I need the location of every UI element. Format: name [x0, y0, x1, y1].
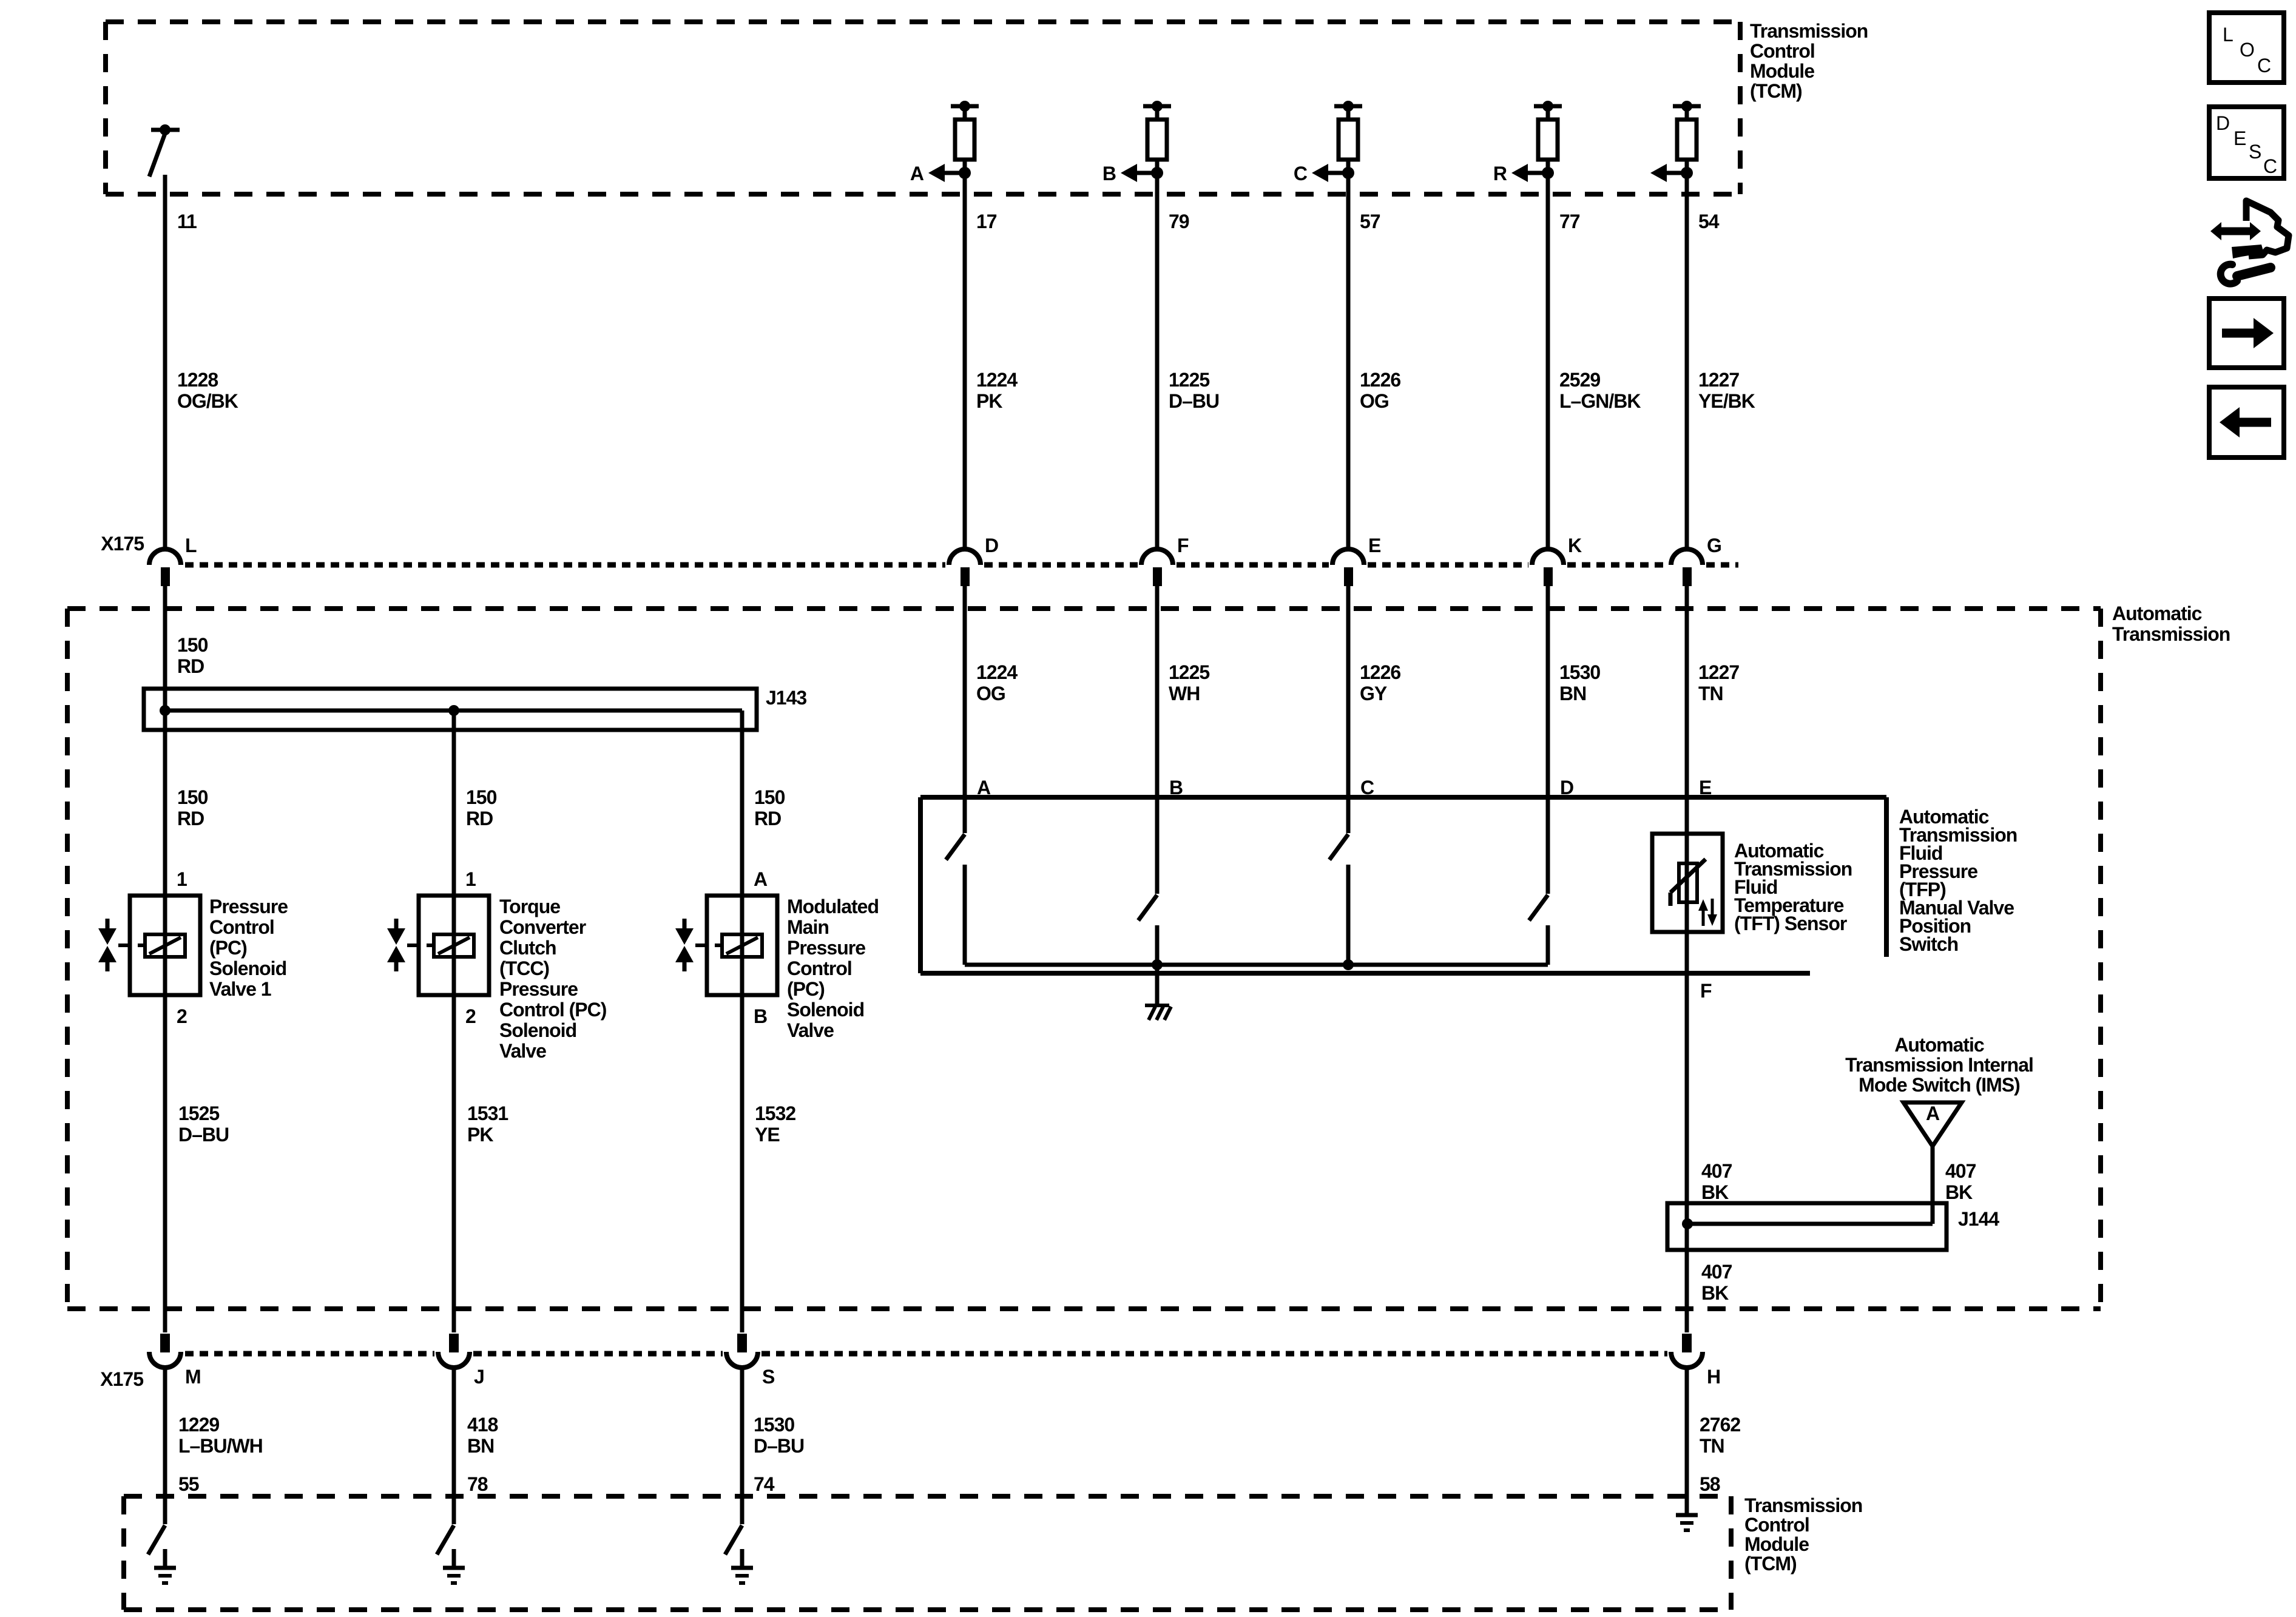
svg-text:E: E	[1699, 777, 1712, 798]
svg-text:2762: 2762	[1700, 1414, 1740, 1436]
svg-text:OG: OG	[1360, 390, 1389, 412]
svg-text:150: 150	[177, 786, 208, 808]
svg-text:S: S	[2249, 141, 2261, 163]
svg-text:Control: Control	[209, 916, 274, 938]
svg-text:(TFT) Sensor: (TFT) Sensor	[1734, 913, 1847, 934]
svg-text:A: A	[977, 777, 991, 798]
svg-text:RD: RD	[177, 655, 204, 677]
svg-text:C: C	[2263, 155, 2277, 177]
svg-text:1: 1	[465, 868, 476, 890]
svg-text:Main: Main	[787, 916, 829, 938]
svg-text:BN: BN	[1559, 683, 1586, 704]
svg-text:77: 77	[1559, 211, 1580, 232]
svg-text:TN: TN	[1700, 1435, 1724, 1457]
svg-text:D–BU: D–BU	[178, 1124, 229, 1146]
svg-text:Transmission Internal: Transmission Internal	[1845, 1054, 2033, 1076]
svg-text:E: E	[1368, 535, 1381, 556]
svg-text:1224: 1224	[976, 661, 1018, 683]
svg-text:Valve: Valve	[499, 1040, 546, 1062]
svg-text:BK: BK	[1701, 1282, 1729, 1304]
svg-text:150: 150	[177, 634, 208, 656]
svg-text:B: B	[754, 1005, 767, 1027]
svg-text:1226: 1226	[1360, 661, 1400, 683]
svg-text:GY: GY	[1360, 683, 1387, 704]
svg-text:E: E	[2234, 127, 2246, 149]
svg-text:B: B	[1102, 163, 1116, 184]
svg-text:C: C	[1294, 163, 1308, 184]
svg-text:1227: 1227	[1698, 369, 1739, 391]
svg-text:Control: Control	[1744, 1514, 1809, 1536]
svg-text:WH: WH	[1169, 683, 1200, 704]
svg-text:C: C	[2257, 55, 2271, 76]
svg-text:J144: J144	[1958, 1208, 1999, 1230]
svg-text:L–GN/BK: L–GN/BK	[1559, 390, 1641, 412]
svg-text:74: 74	[754, 1473, 775, 1495]
svg-text:79: 79	[1169, 211, 1189, 232]
svg-text:(TCM): (TCM)	[1750, 80, 1802, 102]
svg-text:Solenoid: Solenoid	[787, 999, 864, 1021]
svg-text:1531: 1531	[467, 1102, 508, 1124]
svg-text:A: A	[1926, 1102, 1940, 1124]
svg-text:TN: TN	[1698, 683, 1723, 704]
svg-text:Solenoid: Solenoid	[499, 1019, 576, 1041]
svg-text:150: 150	[466, 786, 497, 808]
svg-text:Pressure: Pressure	[787, 937, 865, 959]
svg-text:1: 1	[177, 868, 187, 890]
svg-text:R: R	[1493, 163, 1507, 184]
svg-text:Module: Module	[1750, 60, 1814, 82]
svg-text:A: A	[754, 868, 768, 890]
svg-text:C: C	[1360, 777, 1374, 798]
svg-text:1226: 1226	[1360, 369, 1400, 391]
svg-text:Valve: Valve	[787, 1019, 834, 1041]
svg-text:RD: RD	[466, 808, 493, 829]
svg-text:1228: 1228	[177, 369, 218, 391]
svg-text:2: 2	[465, 1005, 476, 1027]
svg-text:1225: 1225	[1169, 369, 1209, 391]
svg-text:57: 57	[1360, 211, 1380, 232]
svg-text:Control (PC): Control (PC)	[499, 999, 607, 1021]
svg-text:D: D	[2216, 112, 2229, 134]
svg-text:L: L	[2223, 24, 2233, 46]
svg-text:Control: Control	[787, 957, 852, 979]
svg-text:Transmission: Transmission	[1744, 1494, 1862, 1516]
svg-text:D: D	[1560, 777, 1573, 798]
svg-text:407: 407	[1945, 1160, 1976, 1182]
svg-text:Clutch: Clutch	[499, 937, 556, 959]
svg-text:(TCC): (TCC)	[499, 957, 549, 979]
svg-text:Mode Switch (IMS): Mode Switch (IMS)	[1859, 1074, 2020, 1096]
svg-text:(PC): (PC)	[787, 978, 825, 1000]
svg-text:L: L	[185, 535, 197, 556]
svg-text:54: 54	[1698, 211, 1720, 232]
svg-text:1525: 1525	[178, 1102, 219, 1124]
svg-text:17: 17	[976, 211, 997, 232]
svg-text:D: D	[985, 535, 998, 556]
svg-text:418: 418	[467, 1414, 498, 1436]
svg-text:Switch: Switch	[1899, 933, 1958, 955]
svg-text:Valve 1: Valve 1	[209, 978, 271, 1000]
svg-text:Converter: Converter	[499, 916, 586, 938]
svg-text:1532: 1532	[755, 1102, 795, 1124]
svg-text:Control: Control	[1750, 40, 1815, 62]
svg-text:Solenoid: Solenoid	[209, 957, 286, 979]
svg-text:Modulated: Modulated	[787, 896, 879, 917]
svg-text:OG: OG	[976, 683, 1005, 704]
svg-text:55: 55	[178, 1473, 199, 1495]
svg-text:150: 150	[754, 786, 785, 808]
svg-text:H: H	[1707, 1366, 1720, 1388]
svg-text:B: B	[1169, 777, 1183, 798]
svg-text:YE/BK: YE/BK	[1698, 390, 1755, 412]
svg-text:F: F	[1700, 980, 1712, 1002]
svg-text:RD: RD	[754, 808, 781, 829]
svg-text:1224: 1224	[976, 369, 1018, 391]
svg-text:11: 11	[177, 211, 197, 232]
svg-text:RD: RD	[177, 808, 204, 829]
svg-text:2: 2	[177, 1005, 187, 1027]
svg-text:M: M	[185, 1366, 201, 1388]
svg-text:YE: YE	[755, 1124, 780, 1146]
svg-text:J: J	[474, 1366, 484, 1388]
svg-text:78: 78	[467, 1473, 488, 1495]
svg-text:Transmission: Transmission	[2112, 623, 2230, 645]
svg-text:BK: BK	[1701, 1181, 1729, 1203]
svg-text:PK: PK	[467, 1124, 493, 1146]
svg-text:58: 58	[1700, 1473, 1720, 1495]
svg-text:1530: 1530	[754, 1414, 794, 1436]
svg-text:Torque: Torque	[499, 896, 560, 917]
svg-text:BK: BK	[1945, 1181, 1973, 1203]
svg-text:F: F	[1177, 535, 1189, 556]
svg-text:L–BU/WH: L–BU/WH	[178, 1435, 263, 1457]
svg-text:X175: X175	[101, 533, 144, 555]
svg-text:(PC): (PC)	[209, 937, 247, 959]
svg-text:G: G	[1707, 535, 1721, 556]
svg-text:1229: 1229	[178, 1414, 219, 1436]
svg-text:1227: 1227	[1698, 661, 1739, 683]
svg-text:OG/BK: OG/BK	[177, 390, 238, 412]
svg-text:D–BU: D–BU	[754, 1435, 804, 1457]
svg-text:D–BU: D–BU	[1169, 390, 1219, 412]
svg-text:Transmission: Transmission	[1750, 20, 1868, 42]
svg-text:(TCM): (TCM)	[1744, 1553, 1797, 1575]
svg-text:2529: 2529	[1559, 369, 1600, 391]
svg-text:O: O	[2240, 39, 2254, 61]
svg-text:S: S	[762, 1366, 775, 1388]
svg-text:X175: X175	[100, 1368, 143, 1390]
svg-text:Pressure: Pressure	[499, 978, 578, 1000]
svg-text:J143: J143	[766, 687, 806, 709]
svg-text:407: 407	[1701, 1261, 1732, 1283]
svg-text:Automatic: Automatic	[2112, 603, 2202, 624]
svg-text:A: A	[910, 163, 924, 184]
svg-text:1530: 1530	[1559, 661, 1600, 683]
svg-text:K: K	[1568, 535, 1582, 556]
svg-text:Module: Module	[1744, 1533, 1809, 1555]
svg-text:Pressure: Pressure	[209, 896, 288, 917]
svg-text:407: 407	[1701, 1160, 1732, 1182]
svg-text:1225: 1225	[1169, 661, 1209, 683]
svg-text:PK: PK	[976, 390, 1002, 412]
svg-text:BN: BN	[467, 1435, 494, 1457]
svg-text:Automatic: Automatic	[1894, 1034, 1984, 1056]
